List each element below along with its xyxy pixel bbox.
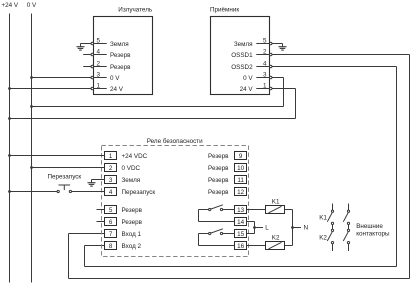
svg-text:0 V: 0 V — [110, 75, 120, 82]
svg-text:Резерв: Резерв — [208, 177, 229, 184]
svg-text:Перезапуск: Перезапуск — [48, 173, 82, 180]
svg-text:1: 1 — [97, 82, 101, 89]
svg-text:Земля: Земля — [110, 41, 129, 48]
svg-text:Земля: Земля — [234, 41, 253, 48]
svg-text:Резерв: Резерв — [208, 153, 229, 160]
svg-text:7: 7 — [109, 231, 113, 238]
svg-text:15: 15 — [237, 231, 245, 238]
svg-text:OSSD2: OSSD2 — [231, 64, 253, 71]
svg-text:Вход 2: Вход 2 — [122, 243, 142, 250]
svg-text:+24 V: +24 V — [2, 2, 19, 9]
svg-text:Излучатель: Излучатель — [118, 6, 153, 13]
svg-text:8: 8 — [109, 243, 113, 250]
svg-text:Перезапуск: Перезапуск — [122, 189, 156, 196]
svg-text:6: 6 — [109, 219, 113, 226]
svg-text:13: 13 — [237, 207, 245, 214]
svg-text:24 V: 24 V — [110, 86, 124, 93]
svg-text:4: 4 — [263, 60, 267, 67]
svg-text:9: 9 — [239, 153, 243, 160]
svg-text:N: N — [304, 225, 309, 232]
svg-text:4: 4 — [109, 189, 113, 196]
svg-text:1: 1 — [109, 153, 113, 160]
svg-text:3: 3 — [97, 71, 101, 78]
svg-text:3: 3 — [263, 71, 267, 78]
svg-text:Внешние: Внешние — [356, 223, 383, 230]
svg-text:3: 3 — [109, 177, 113, 184]
svg-text:K1: K1 — [272, 199, 280, 206]
svg-text:4: 4 — [97, 48, 101, 55]
svg-text:Резерв: Резерв — [122, 207, 143, 214]
svg-text:Реле безопасности: Реле безопасности — [147, 137, 203, 145]
svg-text:+24 VDC: +24 VDC — [122, 153, 148, 160]
svg-text:10: 10 — [237, 165, 245, 172]
svg-text:K2: K2 — [272, 235, 280, 242]
svg-text:16: 16 — [237, 243, 245, 250]
svg-text:5: 5 — [109, 207, 113, 214]
svg-text:24 V: 24 V — [240, 86, 254, 93]
svg-text:0 V: 0 V — [27, 2, 37, 9]
svg-text:Резерв: Резерв — [110, 52, 131, 59]
svg-text:12: 12 — [237, 189, 245, 196]
svg-text:2: 2 — [109, 165, 113, 172]
svg-text:Резерв: Резерв — [110, 64, 131, 71]
svg-text:Резерв: Резерв — [208, 189, 229, 196]
svg-text:14: 14 — [237, 219, 245, 226]
svg-text:контакторы: контакторы — [356, 230, 390, 237]
svg-text:L: L — [265, 225, 269, 232]
svg-text:11: 11 — [237, 177, 244, 184]
svg-text:0 VDC: 0 VDC — [122, 165, 141, 172]
svg-text:K2: K2 — [319, 235, 327, 242]
svg-text:K1: K1 — [319, 215, 327, 222]
svg-text:OSSD1: OSSD1 — [231, 52, 253, 59]
svg-text:0 V: 0 V — [243, 75, 253, 82]
svg-text:5: 5 — [263, 37, 267, 44]
svg-text:2: 2 — [97, 60, 101, 67]
svg-text:1: 1 — [263, 82, 267, 89]
svg-text:Земля: Земля — [122, 177, 141, 184]
svg-text:Вход 1: Вход 1 — [122, 231, 142, 238]
svg-text:Резерв: Резерв — [122, 219, 143, 226]
svg-text:2: 2 — [263, 48, 267, 55]
svg-text:5: 5 — [97, 37, 101, 44]
svg-text:Резерв: Резерв — [208, 165, 229, 172]
svg-text:Приёмник: Приёмник — [210, 7, 239, 14]
